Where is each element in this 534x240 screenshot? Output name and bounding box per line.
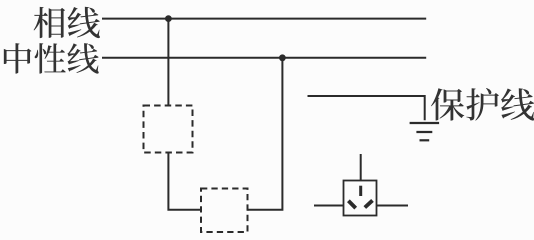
junction node on neutral line (279, 54, 286, 61)
wire tap from phase line down to switch box (167, 19, 169, 106)
label bao-hu-xian (protective line) (431, 88, 534, 121)
label xiang-xian (phase line) (34, 7, 100, 38)
socket left pin slot (348, 201, 355, 208)
wire from lamp box right then up to neutral line (248, 58, 283, 210)
dashed box 2 (lamp) (201, 189, 248, 233)
ground (earth) symbol (410, 123, 440, 140)
wire socket top lead (360, 154, 362, 181)
wire protective earth line PE (308, 96, 425, 120)
wire socket right lead (377, 205, 409, 207)
socket earth pin slot (top vertical) (359, 186, 362, 196)
wire socket left lead (314, 205, 344, 207)
wire neutral line N (102, 57, 426, 59)
label zhong-xing-xian (neutral line) (4, 43, 99, 73)
socket right pin slot (365, 200, 373, 207)
wire from switch box down and right to lamp box (168, 152, 201, 210)
junction node on phase line (165, 15, 172, 22)
wire phase line L (102, 18, 426, 20)
socket outlet symbol box (344, 181, 377, 216)
dashed box 1 (switch) (144, 106, 193, 153)
